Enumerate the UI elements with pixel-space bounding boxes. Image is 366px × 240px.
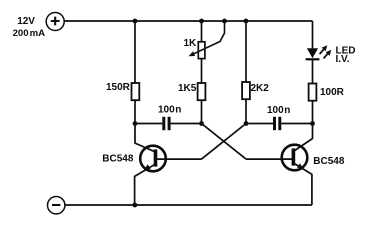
svg-text:200mA: 200mA bbox=[13, 28, 46, 39]
wire 1K5 bottom lead bbox=[201, 100, 203, 123]
svg-text:2K2: 2K2 bbox=[251, 83, 270, 94]
wire 2K2 bottom lead bbox=[245, 99, 247, 123]
wire Q1 base lead bbox=[157, 158, 202, 160]
wire 100R bottom lead bbox=[312, 101, 314, 124]
wire C1 right lead bbox=[171, 123, 202, 125]
wire C2 left lead bbox=[246, 123, 273, 125]
svg-text:100n: 100n bbox=[267, 105, 290, 116]
node 1K5 / C1 / Q2 base net bbox=[199, 121, 204, 126]
node top rail / wiper bbox=[222, 19, 227, 24]
wire 150R bottom lead bbox=[134, 100, 136, 123]
svg-text:BC548: BC548 bbox=[313, 156, 345, 167]
node Q2 collector bbox=[310, 121, 315, 126]
resistor 100R bbox=[309, 84, 317, 101]
wire C1 left lead bbox=[135, 123, 162, 125]
capacitor C1 100n bbox=[162, 117, 170, 130]
resistor 1K5 bbox=[198, 83, 206, 100]
LED IR diode bbox=[306, 45, 332, 60]
wire 150R top lead bbox=[134, 21, 136, 83]
wire LED to 100R bbox=[312, 60, 314, 83]
wire top rail bbox=[64, 20, 313, 22]
svg-text:1K: 1K bbox=[184, 38, 198, 49]
wire LED top lead bbox=[312, 21, 314, 48]
resistor 2K2 bbox=[242, 82, 250, 99]
svg-text:1K5: 1K5 bbox=[178, 83, 197, 94]
wire pot top lead bbox=[201, 21, 203, 42]
svg-text:100n: 100n bbox=[158, 105, 181, 116]
wire Q2 base lead bbox=[246, 158, 292, 160]
svg-text:100R: 100R bbox=[320, 87, 345, 98]
capacitor C2 100n bbox=[273, 117, 281, 130]
wire C2 right lead bbox=[281, 123, 312, 125]
resistor 150R bbox=[132, 83, 140, 100]
svg-text:150R: 150R bbox=[106, 82, 131, 93]
wire 2K2 top lead bbox=[245, 21, 247, 82]
svg-text:BC548: BC548 bbox=[102, 153, 134, 164]
node Q1 collector bbox=[133, 121, 138, 126]
transistor Q2 BC548 bbox=[282, 124, 313, 206]
node top rail / 1K bbox=[199, 19, 204, 24]
transistor Q1 BC548 bbox=[135, 124, 166, 206]
node top rail / 2K2 bbox=[244, 19, 249, 24]
ground terminal minus bbox=[48, 197, 65, 214]
svg-text:I.V.: I.V. bbox=[336, 54, 350, 65]
wire bottom rail bbox=[65, 204, 312, 206]
svg-text:12V: 12V bbox=[17, 16, 35, 27]
node Q1 emitter / bottom rail bbox=[132, 203, 137, 208]
wire cross-couple A (1K5 node to Q2 base) bbox=[202, 124, 247, 160]
node 2K2 / C2 / Q1 base net bbox=[244, 121, 249, 126]
trimmer 1K bbox=[189, 21, 225, 59]
node top rail / 150R bbox=[133, 19, 138, 24]
wire pot to 1K5 bbox=[201, 59, 203, 83]
power terminal +12V bbox=[46, 13, 64, 31]
wire cross-couple B (2K2 node to Q1 base) bbox=[202, 124, 247, 160]
